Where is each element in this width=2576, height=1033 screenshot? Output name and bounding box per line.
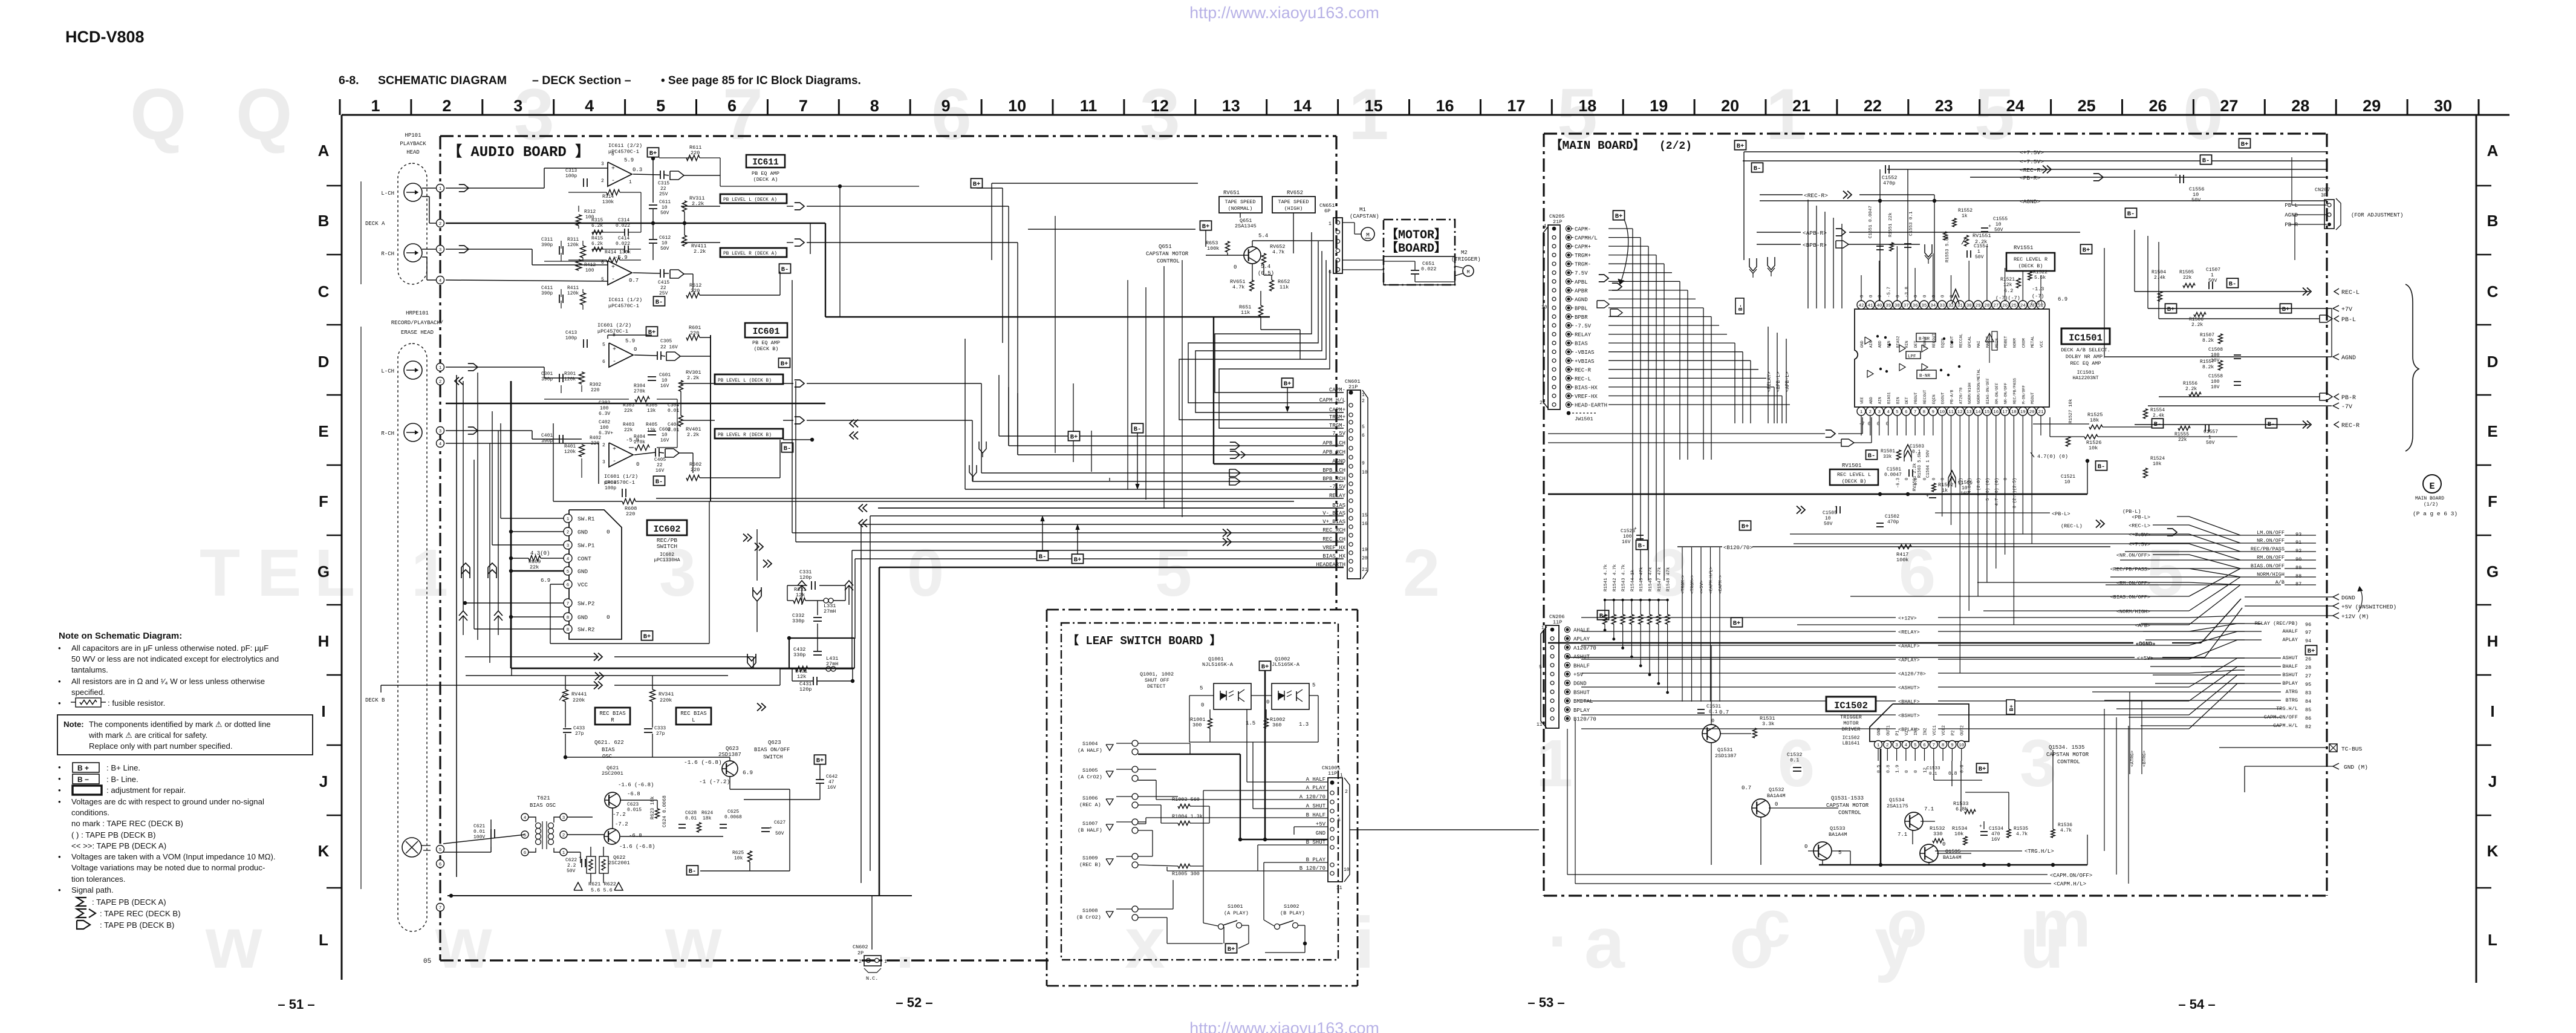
- svg-text:CONT: CONT: [577, 556, 591, 562]
- svg-text:C311: C311: [541, 237, 553, 243]
- svg-text:SHUT OFF: SHUT OFF: [1145, 677, 1169, 683]
- IC1501 top pin labels: [1860, 287, 2044, 348]
- svg-text:IC611: IC611: [752, 158, 779, 168]
- svg-text:+VBIAS: +VBIAS: [1575, 359, 1594, 365]
- warning triangle left: [574, 882, 582, 890]
- svg-text:REC-R: REC-R: [2341, 423, 2360, 429]
- svg-text:0: 0: [1896, 295, 1901, 298]
- svg-text:0: 0: [1941, 478, 1946, 480]
- svg-text:R403: R403: [623, 422, 634, 428]
- svg-text:10: 10: [1008, 97, 1026, 115]
- svg-text:BIAS OSC: BIAS OSC: [530, 803, 556, 809]
- svg-text:6.8k: 6.8k: [1956, 806, 1968, 812]
- PB line deck B R: [681, 417, 972, 429]
- apbl apbr arrows cn205: [1597, 275, 1622, 316]
- svg-text:4.7(0) (0): 4.7(0) (0): [2037, 454, 2068, 460]
- trigger motor M2: [1451, 250, 1481, 276]
- svg-text:PB-R: PB-R: [2341, 395, 2356, 402]
- svg-text:0: 0: [1266, 699, 1269, 705]
- svg-text:10V: 10V: [2211, 385, 2220, 390]
- power label B+ rv1551: [2081, 244, 2092, 254]
- capstan cluster wires: [992, 183, 1333, 330]
- svg-text:16V: 16V: [660, 438, 669, 443]
- svg-text:2: 2: [602, 443, 605, 448]
- svg-text:DET: DET: [1905, 397, 1909, 404]
- leaf switch board outer outline: [1047, 610, 1358, 986]
- svg-text:3P: 3P: [2321, 192, 2327, 198]
- svg-text:0.022: 0.022: [616, 223, 630, 229]
- svg-text:TRIGGER: TRIGGER: [1840, 714, 1862, 720]
- svg-text:(1/2): (1/2): [2424, 502, 2438, 507]
- svg-text:CAPM H/L: CAPM H/L: [1319, 397, 1345, 403]
- svg-text:0.7: 0.7: [1742, 785, 1751, 791]
- svg-text:H: H: [2487, 632, 2499, 650]
- svg-text:REC/PB/PASS: REC/PB/PASS: [2012, 378, 2017, 404]
- svg-text:D: D: [318, 353, 330, 371]
- svg-text:VCC2: VCC2: [1942, 725, 1947, 735]
- svg-text:R1543 4.7k: R1543 4.7k: [1622, 564, 1627, 591]
- svg-text:C1501: C1501: [1887, 467, 1901, 472]
- svg-text:APBL: APBL: [1575, 279, 1588, 285]
- deck A L-CH head coil: [381, 183, 422, 201]
- svg-text:AHALF: AHALF: [2282, 628, 2298, 634]
- erase head HRPE101 body: [398, 344, 427, 931]
- svg-text:0: 0: [636, 461, 639, 468]
- svg-text:-7V: -7V: [2341, 404, 2352, 411]
- svg-text:APLAY: APLAY: [1573, 636, 1590, 642]
- svg-text:<-7.5V>: <-7.5V>: [2020, 158, 2044, 165]
- svg-text:50V: 50V: [567, 868, 576, 874]
- rec bias R adjust box: [595, 708, 630, 725]
- svg-text:-: -: [613, 359, 616, 365]
- rec-r apb-r bpb-r arrows mid: [1757, 191, 2080, 249]
- svg-text:SW.P1: SW.P1: [577, 543, 595, 549]
- svg-text:1: 1: [2211, 273, 2214, 278]
- tc-bus symbol: [2219, 744, 2363, 752]
- svg-text:AHALF: AHALF: [1573, 628, 1590, 634]
- up arrows row G: [461, 563, 496, 578]
- svg-text:C622: C622: [565, 858, 577, 863]
- tape pb arrow deck B R: [468, 427, 478, 434]
- power label B+ vbias: [1072, 525, 1084, 564]
- cn1001 pin labels: [1299, 777, 1335, 875]
- svg-text:PB LEVEL L (DECK A): PB LEVEL L (DECK A): [723, 198, 777, 203]
- svg-text:3: 3: [1878, 410, 1881, 415]
- svg-text:<CAPM.H/L>: <CAPM.H/L>: [2054, 881, 2086, 887]
- svg-text:(A HALF): (A HALF): [1078, 748, 1102, 754]
- svg-text:BIN: BIN: [1896, 397, 1900, 404]
- svg-text:PB-R: PB-R: [2285, 222, 2298, 228]
- svg-text:2SC2001: 2SC2001: [602, 771, 623, 777]
- svg-text:C1521: C1521: [2061, 474, 2075, 480]
- svg-text:C315: C315: [658, 181, 669, 186]
- power label B+ deck B: [646, 327, 658, 336]
- down forks on risers: [969, 442, 986, 481]
- svg-text:120k: 120k: [564, 449, 576, 455]
- svg-text:17: 17: [1507, 97, 1525, 115]
- svg-text:-: -: [613, 458, 616, 465]
- svg-text:Q: Q: [130, 74, 186, 155]
- svg-text:B-NR: B-NR: [1919, 337, 1930, 342]
- svg-text:C313: C313: [565, 168, 577, 174]
- power label B- deck B: [654, 476, 665, 486]
- svg-text:: TAPE PB (DECK A): : TAPE PB (DECK A): [92, 898, 166, 907]
- svg-text:5: 5: [1312, 682, 1315, 688]
- svg-text:<RM.ON/OFF>: <RM.ON/OFF>: [2116, 581, 2150, 587]
- svg-text:C414: C414: [618, 236, 629, 241]
- svg-text:470p: 470p: [1887, 520, 1899, 525]
- cap C1532: [1787, 752, 1803, 771]
- shut off detect label: [1140, 671, 1174, 689]
- motor board wires: [1342, 260, 1455, 282]
- svg-text:L-CH: L-CH: [381, 368, 394, 374]
- svg-text:B+: B+: [2282, 306, 2290, 313]
- svg-text:<TRGM->: <TRGM->: [1681, 575, 1686, 594]
- power label B+ leaf bottom: [1226, 943, 1237, 953]
- svg-text:6: 6: [439, 862, 442, 867]
- op-amp IC611 2/2: [601, 143, 642, 186]
- svg-text:5.6 5.6: 5.6 5.6: [591, 887, 613, 893]
- audio board outline: [440, 136, 1336, 960]
- svg-text:2SD1387: 2SD1387: [1715, 753, 1737, 759]
- svg-text:BPBL: BPBL: [1575, 306, 1588, 312]
- svg-text:C627: C627: [774, 820, 785, 826]
- up chevrons bottom: [459, 581, 853, 635]
- svg-text:30: 30: [2434, 97, 2452, 115]
- svg-text:DGND: DGND: [2341, 595, 2355, 601]
- svg-text:Replace only with part number: Replace only with part number specified.: [89, 741, 233, 751]
- power label B+ audio top: [648, 148, 659, 157]
- q1534 1535 capstan label: [2046, 745, 2089, 765]
- svg-text:TRGM+: TRGM+: [1329, 414, 1345, 420]
- svg-text:C601: C601: [659, 373, 671, 378]
- transistor Q623: [722, 761, 738, 777]
- deck B bracket: [360, 327, 362, 889]
- svg-text:OUT1: OUT1: [1886, 725, 1891, 735]
- svg-text:0.8: 0.8: [1886, 764, 1891, 773]
- svg-text:100p: 100p: [565, 336, 577, 341]
- svg-text:05: 05: [423, 958, 431, 965]
- svg-text:<AHALF>: <AHALF>: [1898, 644, 1920, 650]
- transistor Q651: [1234, 218, 1274, 276]
- svg-text:3: 3: [439, 248, 442, 253]
- svg-text:4.3(0): 4.3(0): [530, 550, 550, 556]
- svg-text:0: 0: [1886, 422, 1889, 427]
- resistor R608: [622, 499, 637, 518]
- svg-text:SWITCH: SWITCH: [657, 543, 677, 550]
- svg-text:100p: 100p: [565, 174, 577, 179]
- power label B- bias: [687, 865, 698, 875]
- main board outline: [1544, 134, 2327, 896]
- leaf switch S1004: [1078, 740, 1138, 755]
- svg-text:B+: B+: [1261, 663, 1269, 671]
- svg-text:25V: 25V: [659, 192, 668, 197]
- svg-text:R302: R302: [590, 382, 601, 388]
- svg-text:F: F: [2488, 492, 2497, 510]
- power label B- vertical small: [1735, 298, 1744, 314]
- svg-text:Q1533: Q1533: [1830, 826, 1846, 832]
- svg-text:3: 3: [601, 161, 604, 167]
- svg-text:22: 22: [657, 463, 663, 468]
- svg-text:( ) : TAPE PB (DECK B): ( ) : TAPE PB (DECK B): [71, 830, 155, 839]
- svg-text:4: 4: [567, 557, 570, 562]
- svg-text:12: 12: [1151, 97, 1169, 115]
- svg-text:MSBET: MSBET: [2004, 336, 2008, 348]
- svg-text:12k: 12k: [797, 674, 806, 680]
- svg-text:C1555: C1555: [1993, 217, 2008, 222]
- cap C622: [565, 855, 585, 874]
- svg-text:6.2k: 6.2k: [591, 241, 603, 247]
- svg-text:(HIGH): (HIGH): [1284, 206, 1303, 212]
- svg-text:•: •: [58, 644, 61, 653]
- svg-text:10: 10: [1939, 410, 1945, 415]
- svg-text:R1004 1.3k: R1004 1.3k: [1172, 813, 1203, 820]
- motor board inner box: [1384, 256, 1455, 285]
- svg-text:100: 100: [585, 268, 594, 273]
- svg-text:4.7k: 4.7k: [1272, 249, 1284, 255]
- svg-text:R1522: R1522: [2033, 270, 2047, 275]
- svg-text:PB LEVEL L (DECK B): PB LEVEL L (DECK B): [718, 379, 772, 383]
- svg-text:37: 37: [1904, 304, 1909, 308]
- svg-text:BIAS: BIAS: [1575, 341, 1588, 347]
- pot RV651 tape speed normal box: [1219, 190, 1262, 213]
- svg-text:CAPM-: CAPM-: [1329, 387, 1345, 393]
- cn601 bus wires: [656, 339, 1344, 896]
- grid column ticks and numbers: [340, 97, 2479, 115]
- svg-text:50V: 50V: [1994, 227, 2003, 233]
- svg-text:IN2: IN2: [1924, 728, 1928, 735]
- svg-text:-5.7: -5.7: [1887, 287, 1892, 298]
- svg-text:R1553 5.6k: R1553 5.6k: [1945, 235, 1950, 262]
- svg-text:0: 0: [1914, 770, 1919, 773]
- power label B+ capstan: [1200, 221, 1212, 230]
- svg-text:0 (2.5)(2.5): 0 (2.5)(2.5): [2012, 478, 2017, 508]
- transistor Q1535: [1920, 841, 1962, 862]
- svg-text:AGND: AGND: [1575, 297, 1588, 303]
- svg-text:BIAS-HX: BIAS-HX: [1575, 385, 1598, 391]
- svg-text:CROM: CROM: [2021, 338, 2026, 348]
- svg-text:<AGND>: <AGND>: [2020, 198, 2041, 205]
- bias head pins: [437, 846, 444, 911]
- watermark row 4: [1536, 726, 2091, 961]
- legend tape pb deck a arrow: [77, 898, 166, 907]
- svg-text:7.1: 7.1: [1924, 806, 1934, 812]
- svg-text:c: c: [1754, 887, 1791, 961]
- svg-text:3.3k: 3.3k: [1762, 721, 1774, 727]
- svg-text:21: 21: [1362, 567, 1368, 573]
- vertical bundle mid main board: [1808, 200, 1842, 308]
- svg-text:B: B: [2487, 212, 2499, 230]
- svg-text:R315: R315: [591, 218, 603, 223]
- svg-text:BIAS: BIAS: [602, 747, 615, 753]
- svg-text:C1551 0.0047: C1551 0.0047: [1869, 206, 1873, 238]
- svg-text:5: 5: [567, 570, 570, 575]
- svg-text:BA1A4M: BA1A4M: [1829, 832, 1847, 838]
- svg-text:88: 88: [2295, 573, 2301, 579]
- svg-text:11: 11: [1537, 722, 1543, 728]
- svg-text:<NR.ON/OFF>: <NR.ON/OFF>: [2116, 553, 2150, 559]
- rec arrows mid: [850, 420, 854, 428]
- svg-text:94: 94: [2305, 638, 2311, 644]
- svg-text:-1.6 (-6.8): -1.6 (-6.8): [619, 844, 655, 850]
- svg-text:10V: 10V: [2211, 358, 2220, 363]
- svg-text:AGND: AGND: [2341, 355, 2356, 362]
- svg-text:0: 0: [1923, 295, 1928, 298]
- svg-text:100: 100: [600, 406, 609, 411]
- svg-text:MSIN: MSIN: [1995, 338, 1999, 348]
- deck A input RC network: [541, 168, 631, 348]
- svg-text:85: 85: [2305, 707, 2311, 713]
- svg-text:28: 28: [1984, 304, 1989, 308]
- svg-text:<APB-R>: <APB-R>: [1803, 230, 1827, 236]
- svg-text:E: E: [318, 422, 328, 440]
- svg-text:TAPE SPEED: TAPE SPEED: [1278, 199, 1309, 205]
- svg-text:MOTOR: MOTOR: [1843, 720, 1859, 726]
- svg-text:DECK A: DECK A: [365, 221, 385, 227]
- PB LEVEL R (DECK B) adjust box: [715, 429, 783, 438]
- svg-text:2: 2: [439, 380, 442, 385]
- svg-text:R625: R625: [732, 850, 744, 856]
- power label B- mid: [1132, 423, 1143, 489]
- svg-text:B+: B+: [2308, 648, 2315, 655]
- svg-text:B+: B+: [1284, 380, 1292, 388]
- up chevrons ic1501 bottom: [1904, 445, 1956, 487]
- svg-text:41: 41: [1867, 304, 1873, 308]
- svg-text:R1507: R1507: [2200, 333, 2214, 338]
- svg-text:11k: 11k: [1241, 310, 1250, 316]
- svg-text:27: 27: [1993, 304, 1999, 308]
- svg-text:0: 0: [1201, 702, 1204, 708]
- deck B L-CH head coil: [381, 361, 422, 379]
- svg-text:C1502: C1502: [1885, 514, 1899, 520]
- svg-text:R402: R402: [590, 435, 601, 441]
- svg-text:C1523: C1523: [1621, 529, 1635, 534]
- svg-text:13: 13: [1222, 97, 1240, 115]
- svg-text:C1554: C1554: [1974, 244, 1988, 249]
- svg-text:23: 23: [1935, 97, 1953, 115]
- svg-text:S1004: S1004: [1082, 741, 1098, 747]
- svg-text:2: 2: [1362, 399, 1365, 404]
- REC LEVEL R adjust box: [2006, 245, 2055, 271]
- svg-text:B120/70: B120/70: [1573, 717, 1596, 723]
- svg-text:1: 1: [1544, 224, 1547, 229]
- svg-text:•: •: [58, 699, 61, 708]
- svg-text:C405: C405: [654, 457, 666, 463]
- svg-text:0: 0: [1804, 844, 1807, 850]
- svg-text:BHALF: BHALF: [1573, 663, 1590, 669]
- svg-text:10: 10: [2064, 480, 2070, 485]
- svg-text:B+: B+: [1742, 523, 1749, 530]
- thick b rail ic602 bottom: [511, 638, 854, 668]
- transistor Q1532: [1742, 785, 1786, 817]
- gnd m arrow: [2245, 763, 2368, 792]
- svg-text:1: 1: [1541, 625, 1544, 631]
- pot RV652 component: [1262, 244, 1286, 264]
- power label B- audio right: [779, 264, 791, 273]
- svg-text:LB1641: LB1641: [1843, 741, 1860, 746]
- svg-text:CONTROL: CONTROL: [1838, 810, 1861, 816]
- svg-text:M-ON/OFF: M-ON/OFF: [2021, 385, 2026, 404]
- svg-text:0.1: 0.1: [1790, 757, 1799, 763]
- svg-text:(DECK B): (DECK B): [1842, 478, 1867, 484]
- svg-text:11P: 11P: [1553, 619, 1562, 625]
- svg-text:39: 39: [1885, 304, 1891, 308]
- svg-text:R1506: R1506: [2189, 317, 2204, 322]
- grid right border line: [2476, 115, 2477, 983]
- svg-text:2: 2: [601, 178, 604, 184]
- power label B+ bias: [815, 755, 826, 764]
- svg-text:6: 6: [1923, 743, 1926, 748]
- svg-text:14: 14: [1293, 97, 1312, 115]
- svg-text:«DGND»: «DGND»: [2136, 641, 2155, 647]
- svg-text:DOLBY NR AMP.: DOLBY NR AMP.: [2066, 354, 2106, 360]
- svg-text:IC601: IC601: [752, 327, 779, 337]
- svg-text:C305: C305: [660, 339, 672, 344]
- svg-text:B-NR: B-NR: [1919, 374, 1931, 379]
- svg-text:92: 92: [2295, 548, 2301, 554]
- svg-text:HEAD: HEAD: [406, 149, 420, 155]
- svg-text:【MOTOR】: 【MOTOR】: [1386, 227, 1446, 243]
- svg-text:NR-ON/OFF: NR-ON/OFF: [2004, 383, 2008, 404]
- svg-text:35: 35: [1921, 304, 1927, 308]
- svg-text:IC602: IC602: [660, 552, 674, 558]
- deck B output caps: [648, 339, 701, 481]
- svg-text:B+: B+: [1228, 946, 1235, 953]
- svg-text:GND: GND: [1860, 341, 1864, 348]
- power label B+ cn206: [1598, 610, 1609, 619]
- PB LEVEL L (DECK B) adjust box: [715, 374, 783, 384]
- svg-text:.: .: [1548, 887, 1567, 961]
- svg-text:+: +: [613, 347, 616, 353]
- resistor R651: [1239, 304, 1263, 316]
- svg-text:50V: 50V: [660, 246, 669, 252]
- svg-text:120p: 120p: [799, 686, 812, 692]
- svg-text:w: w: [205, 902, 262, 983]
- svg-text:2.2k: 2.2k: [694, 249, 706, 255]
- svg-text:C628: C628: [685, 810, 697, 816]
- svg-text:6-8.: 6-8.: [339, 74, 359, 87]
- svg-text:1k: 1k: [1962, 213, 1968, 219]
- cap C1556: [2174, 173, 2205, 203]
- svg-text:12: 12: [1957, 410, 1963, 415]
- svg-text:5: 5: [1155, 536, 1192, 610]
- leaf switch wires: [1138, 670, 1539, 953]
- svg-text:IC1501: IC1501: [2069, 333, 2103, 344]
- svg-text:0: 0: [1860, 295, 1865, 298]
- svg-text:P2: P2: [1951, 731, 1956, 735]
- svg-text:8.2k: 8.2k: [2202, 338, 2214, 344]
- svg-text:IC601 (2/2): IC601 (2/2): [597, 322, 631, 328]
- svg-text:R623 18k: R623 18k: [650, 796, 655, 820]
- svg-text:Q651: Q651: [1159, 244, 1172, 250]
- transistor Q621: [602, 765, 654, 827]
- svg-text:33: 33: [1939, 304, 1945, 308]
- svg-text:22: 22: [660, 285, 666, 291]
- svg-text:RECOUT: RECOUT: [1923, 389, 1927, 404]
- svg-text:8: 8: [870, 97, 879, 115]
- svg-text:1: 1: [1329, 221, 1332, 227]
- transistor Q1534: [1887, 797, 1934, 838]
- svg-text:A: A: [2487, 142, 2499, 160]
- svg-text:15: 15: [1365, 97, 1383, 115]
- svg-text:50V: 50V: [1975, 255, 1984, 260]
- svg-text:R312: R312: [584, 209, 596, 215]
- svg-text:R1524: R1524: [2150, 456, 2165, 461]
- svg-text:16V: 16V: [1960, 491, 1969, 497]
- power label B+ ic1502 right: [2006, 700, 2015, 714]
- svg-text:REC-R: REC-R: [1575, 367, 1592, 373]
- svg-text:: TAPE PB (DECK B): : TAPE PB (DECK B): [100, 921, 174, 930]
